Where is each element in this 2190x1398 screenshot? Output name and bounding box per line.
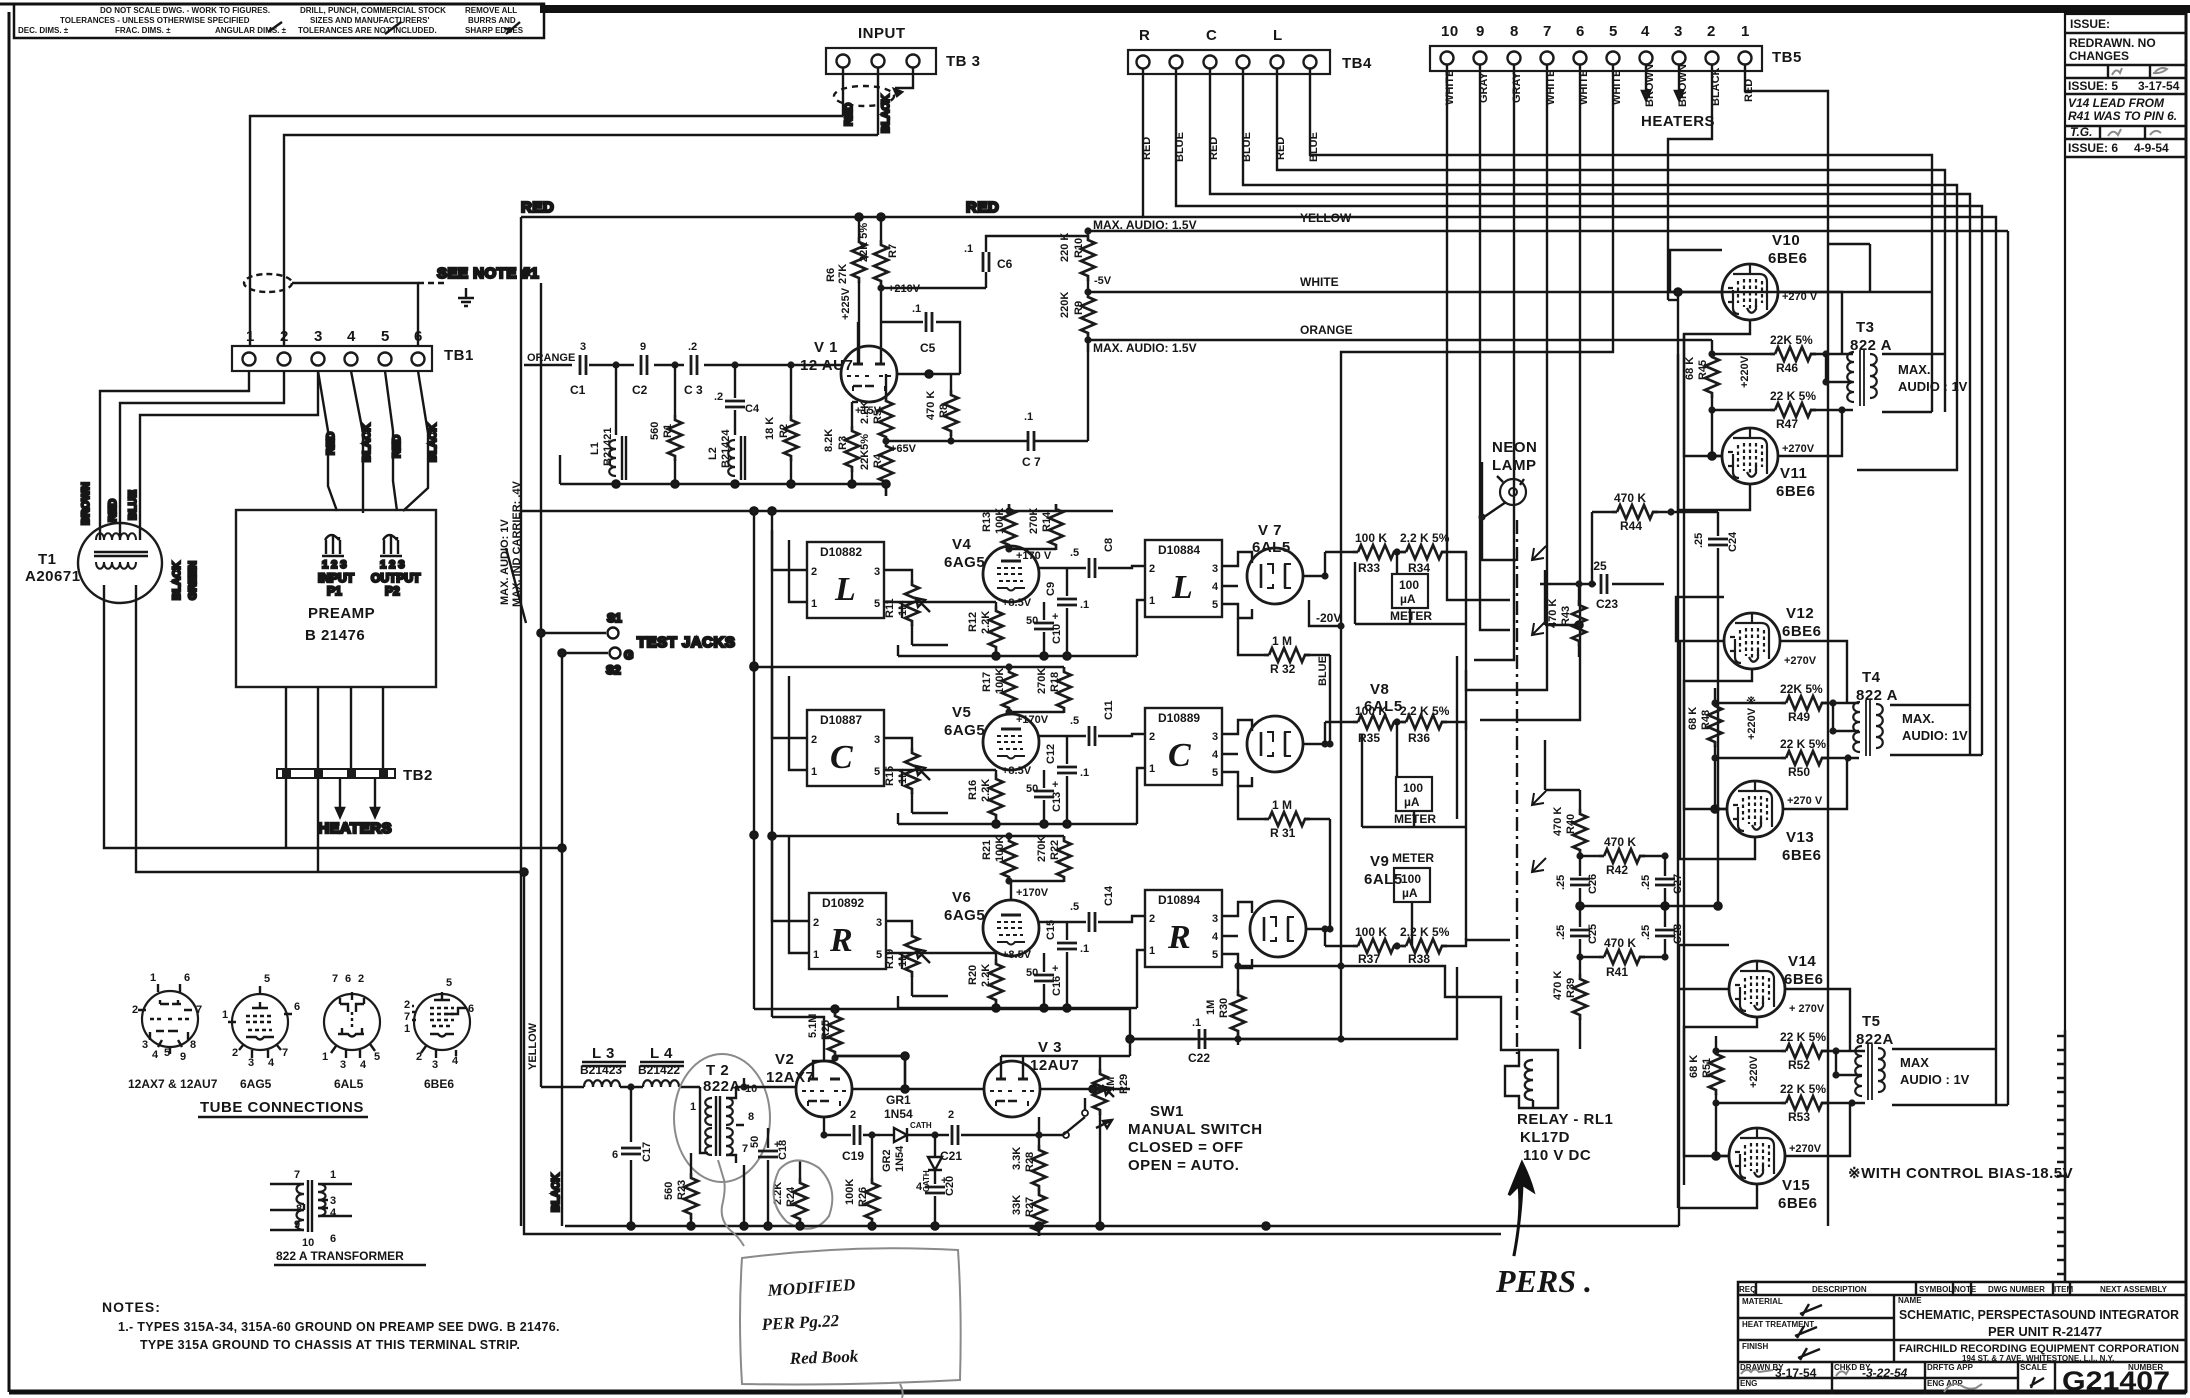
svg-text:C14: C14 <box>1103 885 1115 906</box>
svg-text:6AG5: 6AG5 <box>944 722 985 739</box>
GR2 1N54 diode vertical <box>881 1135 942 1192</box>
svg-text:R36: R36 <box>1408 731 1430 745</box>
svg-text:R18: R18 <box>1049 672 1061 692</box>
R47 22K 5% <box>1712 389 1846 431</box>
neon lamp <box>1478 439 1537 560</box>
svg-text:6: 6 <box>345 973 351 985</box>
svg-text:MAX.: MAX. <box>1902 711 1935 726</box>
C10 50 cap <box>1026 602 1063 656</box>
svg-text:RED: RED <box>391 435 403 458</box>
svg-text:R53: R53 <box>1788 1110 1810 1124</box>
svg-text:TOLERANCES - UNLESS OTHERWISE: TOLERANCES - UNLESS OTHERWISE SPECIFIED <box>60 16 250 25</box>
svg-text:+8.5V: +8.5V <box>1002 949 1032 961</box>
R20 2.2K <box>902 949 1032 1008</box>
TB5 drops <box>1341 65 1828 1226</box>
svg-text:100K: 100K <box>994 836 1006 862</box>
svg-text:470 K: 470 K <box>1604 835 1636 849</box>
svg-text:R 32: R 32 <box>1270 662 1296 676</box>
svg-text:R5: R5 <box>872 410 884 424</box>
svg-text:P2: P2 <box>385 584 400 598</box>
MAX AUDIO labels + colored buses <box>1088 211 2008 1105</box>
PERS arrow <box>1495 1163 1592 1299</box>
svg-text:+8.5V: +8.5V <box>1002 597 1032 609</box>
svg-text:3: 3 <box>874 734 880 746</box>
svg-text:R49: R49 <box>1788 710 1810 724</box>
68K R48 <box>1687 688 1722 762</box>
R37 100K + R38 2.2K5% <box>1325 925 1466 966</box>
TB5 wire labels <box>1444 64 1755 107</box>
svg-text:RED: RED <box>107 499 119 522</box>
svg-text:+225V: +225V <box>840 287 852 320</box>
R21 100K / R22 270K <box>981 832 1071 900</box>
68K R51 <box>1688 1036 1723 1107</box>
svg-text:2: 2 <box>1149 563 1155 575</box>
svg-text:R1: R1 <box>662 424 674 438</box>
svg-text:C20: C20 <box>944 1176 956 1196</box>
svg-text:V14 LEAD FROM: V14 LEAD FROM <box>2068 96 2165 110</box>
svg-text:B21424: B21424 <box>720 429 732 468</box>
svg-text:R15: R15 <box>884 766 896 786</box>
svg-text:L2: L2 <box>707 447 719 460</box>
svg-text:R27: R27 <box>1024 1197 1036 1217</box>
svg-text:22K5%: 22K5% <box>859 434 871 470</box>
svg-text:50: 50 <box>1026 783 1038 795</box>
svg-text:6: 6 <box>468 1003 474 1015</box>
svg-text:SEE NOTE #1: SEE NOTE #1 <box>437 265 539 282</box>
svg-text:OPEN = AUTO.: OPEN = AUTO. <box>1128 1157 1239 1174</box>
svg-text:G: G <box>624 648 633 662</box>
svg-text:L1: L1 <box>589 442 601 455</box>
R13 100K / R14 270K <box>981 504 1063 562</box>
output plug P2 <box>371 534 421 598</box>
svg-text:TUBE CONNECTIONS: TUBE CONNECTIONS <box>200 1099 364 1116</box>
svg-text:2.2K: 2.2K <box>859 401 871 424</box>
svg-text:R: R <box>1167 919 1191 956</box>
svg-text:+220V ※: +220V ※ <box>1746 696 1758 740</box>
heaters arrows under TB2 <box>318 778 392 837</box>
C13 50 cap <box>1026 770 1063 824</box>
svg-text:.25: .25 <box>1640 875 1652 890</box>
long -20V line under V1 <box>521 507 1113 514</box>
wires oscillator top <box>835 967 1457 1089</box>
svg-text:2: 2 <box>811 734 817 746</box>
svg-text:470 K: 470 K <box>1552 971 1564 1000</box>
svg-text:C12: C12 <box>1045 744 1057 764</box>
svg-text:.25: .25 <box>1590 559 1607 573</box>
svg-text:SCHEMATIC, PERSPECTASOUND INTE: SCHEMATIC, PERSPECTASOUND INTEGRATOR <box>1899 1307 2180 1322</box>
svg-text:CHANGES: CHANGES <box>2069 49 2129 63</box>
svg-text:C8: C8 <box>1103 538 1115 552</box>
svg-text:4: 4 <box>347 328 356 345</box>
svg-text:C: C <box>1206 27 1217 44</box>
svg-text:※WITH CONTROL BIAS-18.5V: ※WITH CONTROL BIAS-18.5V <box>1848 1165 2073 1182</box>
svg-text:10: 10 <box>302 1237 314 1249</box>
svg-text:560: 560 <box>663 1182 675 1200</box>
SW1 switch <box>1040 1098 1263 1174</box>
svg-text:5: 5 <box>874 766 880 778</box>
svg-text:470 K: 470 K <box>1614 491 1646 505</box>
R29 1M pot <box>1093 1056 1130 1226</box>
svg-text:PREAMP: PREAMP <box>308 605 375 622</box>
R25 5.1M <box>807 1009 905 1062</box>
svg-text:C18: C18 <box>777 1140 789 1160</box>
terminal block TB4 (R C L) <box>1128 27 1372 74</box>
oscillator output wiring to relay <box>0 0 1 1</box>
C14 cap <box>1070 885 1145 932</box>
svg-text:4: 4 <box>1641 23 1650 40</box>
svg-text:.5: .5 <box>1070 901 1079 913</box>
wires TB1 pins to preamp connectors <box>318 371 439 513</box>
svg-text:8.2K: 8.2K <box>823 429 835 452</box>
svg-text:270K: 270K <box>1036 668 1048 694</box>
svg-text:100K: 100K <box>844 1179 856 1205</box>
svg-text:3: 3 <box>1212 913 1218 925</box>
svg-text:YELLOW: YELLOW <box>1300 211 1352 225</box>
R19 1M pot <box>884 921 948 996</box>
tube V14 6BE6 <box>1729 953 1825 1017</box>
ISSUE revision box top-right <box>2065 14 2186 1282</box>
left rails to D boxes <box>750 507 1064 1061</box>
svg-text:µA: µA <box>1402 886 1418 900</box>
R39 470K <box>1552 957 1587 1049</box>
test jacks S1 S2 <box>537 611 735 677</box>
C23 .25 <box>1540 559 1664 611</box>
svg-text:NOTE: NOTE <box>1954 1285 1977 1294</box>
svg-text:4: 4 <box>1212 749 1219 761</box>
wire V2 plate to V3 <box>852 1056 1130 1093</box>
svg-text:BLUE: BLUE <box>127 490 139 520</box>
NOTES <box>102 1299 560 1352</box>
svg-text:D10887: D10887 <box>820 713 862 727</box>
svg-text:100 K: 100 K <box>1355 704 1387 718</box>
svg-text:+65V: +65V <box>890 443 917 455</box>
svg-text:DRILL, PUNCH, COMMERCIAL STOCK: DRILL, PUNCH, COMMERCIAL STOCK <box>300 6 446 15</box>
svg-text:C: C <box>1168 737 1191 774</box>
svg-text:2.2 K 5%: 2.2 K 5% <box>1400 925 1450 939</box>
svg-text:.5: .5 <box>1070 715 1079 727</box>
svg-text:+8.5V: +8.5V <box>1002 765 1032 777</box>
svg-text:3: 3 <box>142 1039 148 1051</box>
R30 1M <box>1205 962 1519 1050</box>
svg-text:+170V: +170V <box>1016 714 1049 726</box>
svg-text:1: 1 <box>1149 763 1155 775</box>
cathode bus under V1 <box>560 455 890 496</box>
svg-text:C11: C11 <box>1103 700 1115 720</box>
C24 .25 <box>1693 512 1739 906</box>
svg-text:7: 7 <box>742 1143 748 1155</box>
svg-text:470 K: 470 K <box>925 391 937 420</box>
svg-text:R41: R41 <box>1606 965 1628 979</box>
tube V9 6AL5 <box>1250 853 1403 957</box>
R23 560 <box>663 1153 698 1226</box>
svg-text:2: 2 <box>1149 731 1155 743</box>
svg-text:RED: RED <box>325 432 337 455</box>
title block bottom-right <box>1738 1282 2186 1396</box>
svg-text:V11: V11 <box>1780 465 1807 482</box>
svg-text:.1: .1 <box>1080 767 1089 779</box>
svg-text:5: 5 <box>1609 23 1618 40</box>
resistor R10 220K <box>1059 231 1112 292</box>
svg-text:REQ: REQ <box>1739 1285 1756 1294</box>
svg-text:S2: S2 <box>606 663 621 677</box>
cathode bus V4 <box>898 645 1137 660</box>
keyer box D10884 (L out) <box>1137 540 1252 656</box>
R35 100K + R36 2.2K5% <box>1325 704 1466 745</box>
svg-text:+220V: +220V <box>1748 1055 1760 1088</box>
svg-text:AUDIO : 1V: AUDIO : 1V <box>1898 379 1968 394</box>
svg-text:7: 7 <box>196 1004 202 1016</box>
svg-text:HEATERS: HEATERS <box>318 820 392 837</box>
svg-text:V2: V2 <box>775 1051 794 1068</box>
svg-text:+ 270V: + 270V <box>1789 1003 1825 1015</box>
svg-text:5: 5 <box>264 973 270 985</box>
see note 1 + shield <box>244 265 539 346</box>
svg-text:8: 8 <box>1510 23 1519 40</box>
svg-text:S1: S1 <box>607 611 622 625</box>
svg-text:2.2K: 2.2K <box>980 779 992 802</box>
svg-text:MAX.: MAX. <box>1898 362 1931 377</box>
svg-text:2: 2 <box>1707 23 1716 40</box>
svg-text:µA: µA <box>1404 795 1420 809</box>
terminal block TB5 <box>1430 23 1802 71</box>
svg-text:3: 3 <box>1212 731 1218 743</box>
R32 1M <box>1238 618 1334 748</box>
R5 2.2K and R4 22K5% stack <box>859 374 917 496</box>
svg-text:TB2: TB2 <box>403 767 433 784</box>
svg-text:FRAC. DIMS. ±: FRAC. DIMS. ± <box>115 26 171 35</box>
svg-text:WHITE: WHITE <box>1300 275 1339 289</box>
svg-text:G21407: G21407 <box>2062 1366 2170 1396</box>
svg-text:R17: R17 <box>981 672 993 692</box>
TB4 wire drop labels <box>1141 132 1320 162</box>
svg-text:HEATERS: HEATERS <box>1641 113 1715 130</box>
svg-text:BROWN: BROWN <box>80 482 92 525</box>
svg-text:5: 5 <box>164 1047 170 1059</box>
svg-text:L: L <box>834 571 856 608</box>
svg-text:5: 5 <box>1212 949 1218 961</box>
svg-text:.25: .25 <box>1693 533 1705 548</box>
R42 470K <box>1576 835 1668 877</box>
right vertical rails <box>1668 288 1684 1208</box>
svg-text:+270 V: +270 V <box>1787 795 1823 807</box>
svg-text:8: 8 <box>190 1039 196 1051</box>
svg-text:6: 6 <box>612 1149 618 1161</box>
svg-text:NEXT ASSEMBLY: NEXT ASSEMBLY <box>2100 1285 2168 1294</box>
svg-text:R16: R16 <box>967 780 979 800</box>
svg-text:RED: RED <box>521 199 554 216</box>
resistor R8 470K <box>925 374 958 445</box>
svg-text:V 1: V 1 <box>814 339 838 356</box>
svg-text:.1: .1 <box>912 303 921 315</box>
svg-text:R12: R12 <box>967 612 979 632</box>
svg-text:C: C <box>830 739 853 776</box>
svg-text:2: 2 <box>232 1047 238 1059</box>
svg-text:22K 5%: 22K 5% <box>1780 682 1823 696</box>
C18 50 <box>749 1128 789 1226</box>
svg-text:µA: µA <box>1400 592 1416 606</box>
svg-text:R4: R4 <box>872 453 884 468</box>
svg-text:100K: 100K <box>994 508 1006 534</box>
svg-text:TB 3: TB 3 <box>946 53 981 70</box>
svg-text:1 M: 1 M <box>1272 634 1292 648</box>
R24 2.2K with pencil loop <box>772 1160 832 1229</box>
R15 1M pot <box>884 738 948 813</box>
svg-text:R19: R19 <box>884 949 896 969</box>
svg-text:V10: V10 <box>1772 232 1800 249</box>
svg-text:1.- TYPES 315A-34, 315A-60 GRO: 1.- TYPES 315A-34, 315A-60 GROUND ON PRE… <box>118 1320 560 1334</box>
tube V13 6BE6 <box>1727 781 1823 864</box>
svg-text:V12: V12 <box>1786 605 1814 622</box>
keyer box D10887 (C) <box>772 666 902 786</box>
svg-text:6: 6 <box>330 1233 336 1245</box>
svg-text:9: 9 <box>1476 23 1485 40</box>
svg-text:DO NOT SCALE DWG. - WORK TO FI: DO NOT SCALE DWG. - WORK TO FIGURES. <box>100 6 270 15</box>
svg-text:R42: R42 <box>1606 863 1628 877</box>
svg-text:68 K: 68 K <box>1688 1055 1700 1078</box>
svg-text:R22: R22 <box>1049 840 1061 860</box>
svg-text:R38: R38 <box>1408 952 1430 966</box>
svg-text:12AU7: 12AU7 <box>1030 1057 1079 1074</box>
svg-text:R26: R26 <box>857 1187 869 1207</box>
svg-text:1: 1 <box>1741 23 1750 40</box>
svg-text:R48: R48 <box>1700 710 1712 730</box>
svg-text:100 K: 100 K <box>1355 531 1387 545</box>
svg-text:TYPE 315A GROUND TO CHASSIS AT: TYPE 315A GROUND TO CHASSIS AT THIS TERM… <box>140 1338 520 1352</box>
svg-text:D10882: D10882 <box>820 545 862 559</box>
V12/V13 left wiring <box>1676 597 1847 859</box>
svg-text:R11: R11 <box>884 598 896 618</box>
C17 <box>612 1087 653 1226</box>
svg-text:4: 4 <box>360 1059 367 1071</box>
modified note box <box>718 1160 961 1398</box>
svg-text:5.1M: 5.1M <box>807 1014 819 1038</box>
svg-text:R39: R39 <box>1565 978 1577 998</box>
svg-text:BLACK: BLACK <box>171 561 183 600</box>
resistor R7 22K 5% <box>840 217 921 364</box>
svg-text:2: 2 <box>811 566 817 578</box>
svg-text:1: 1 <box>222 1009 228 1021</box>
svg-text:T 2: T 2 <box>706 1062 729 1079</box>
C12 cap <box>1039 736 1089 824</box>
svg-text:V 7: V 7 <box>1258 522 1282 539</box>
68K R45 <box>1684 340 1719 414</box>
svg-text:SIZES AND MANUFACTURERS': SIZES AND MANUFACTURERS' <box>310 16 429 25</box>
svg-text:.1: .1 <box>1080 943 1089 955</box>
svg-text:4: 4 <box>152 1049 159 1061</box>
svg-text:R2: R2 <box>778 424 790 438</box>
keyer box D10889 (C out) <box>1137 708 1252 824</box>
svg-text:3: 3 <box>1674 23 1683 40</box>
svg-text:9: 9 <box>640 341 646 353</box>
svg-text:OUTPUT: OUTPUT <box>371 571 421 585</box>
svg-text:1: 1 <box>811 598 817 610</box>
svg-text:R7: R7 <box>887 244 899 258</box>
svg-text:6BE6: 6BE6 <box>1784 971 1824 988</box>
svg-text:3: 3 <box>874 566 880 578</box>
svg-text:R44: R44 <box>1620 519 1642 533</box>
svg-text:METER: METER <box>1392 851 1434 865</box>
svg-text:L: L <box>1273 27 1283 44</box>
svg-text:MANUAL SWITCH: MANUAL SWITCH <box>1128 1121 1263 1138</box>
svg-text:8: 8 <box>748 1111 754 1123</box>
svg-text:C22: C22 <box>1188 1051 1210 1065</box>
svg-text:220 K: 220 K <box>1059 233 1071 262</box>
svg-text:6BE6: 6BE6 <box>424 1077 454 1091</box>
svg-text:NAME: NAME <box>1898 1296 1922 1305</box>
svg-text:B21421: B21421 <box>602 427 614 466</box>
svg-text:6BE6: 6BE6 <box>1782 847 1822 864</box>
BLACK bottom bus <box>524 1140 1679 1234</box>
keyer box D10882 (L) <box>772 530 902 618</box>
svg-text:+: + <box>1052 963 1058 975</box>
transformer T5 822A <box>1832 1013 2008 1105</box>
svg-text:3: 3 <box>432 1059 438 1071</box>
svg-text:BLUE: BLUE <box>1317 656 1329 686</box>
svg-text:V8: V8 <box>1370 681 1389 698</box>
svg-text:2.2 K 5%: 2.2 K 5% <box>1400 531 1450 545</box>
svg-text:SYMBOL: SYMBOL <box>1919 1285 1953 1294</box>
tube V10 6BE6 <box>1722 232 1870 320</box>
svg-text:+170V: +170V <box>1016 887 1049 899</box>
C11 cap <box>1070 700 1145 746</box>
svg-text:6AG5: 6AG5 <box>240 1077 272 1091</box>
svg-text:68 K: 68 K <box>1684 357 1696 380</box>
transformer T1 A20671 <box>25 518 162 603</box>
svg-text:194 ST. & 7 AVE. WHITESTONE,: 194 ST. & 7 AVE. WHITESTONE, L.I., N.Y. <box>1962 1354 2114 1363</box>
6AL5 basing <box>322 973 380 1091</box>
svg-text:SW1: SW1 <box>1150 1103 1184 1120</box>
svg-text:7: 7 <box>1543 23 1552 40</box>
svg-text:C5: C5 <box>920 341 936 355</box>
input chain C1 C2 C3 <box>524 341 841 397</box>
svg-text:27K: 27K <box>837 264 849 284</box>
svg-text:1: 1 <box>246 328 255 345</box>
svg-text:4: 4 <box>916 1181 923 1193</box>
svg-text:ORANGE: ORANGE <box>527 352 575 364</box>
TB4 staircase wires to right rails <box>1143 68 1996 1049</box>
svg-text:LAMP: LAMP <box>1492 457 1537 474</box>
svg-text:R50: R50 <box>1788 765 1810 779</box>
YELLOW rail label <box>527 1022 584 1087</box>
GR1 1N54 diode <box>880 1093 939 1142</box>
zipper tick line above title block <box>2057 1030 2065 1282</box>
C5 cap <box>881 303 960 374</box>
svg-text:V13: V13 <box>1786 829 1814 846</box>
svg-text:CLOSED = OFF: CLOSED = OFF <box>1128 1139 1244 1156</box>
svg-text:2: 2 <box>280 328 289 345</box>
wire TB3 to TB1 loop <box>250 116 878 346</box>
svg-text:1: 1 <box>690 1101 696 1113</box>
svg-text:.5: .5 <box>1070 547 1079 559</box>
svg-text:C25: C25 <box>1587 924 1599 944</box>
svg-text:12AX7 & 12AU7: 12AX7 & 12AU7 <box>128 1077 218 1091</box>
svg-text:2: 2 <box>850 1109 856 1121</box>
svg-text:4: 4 <box>268 1057 275 1069</box>
svg-text:22K 5%: 22K 5% <box>858 223 870 262</box>
C16 50 cap <box>1026 953 1063 1008</box>
svg-text:6AG5: 6AG5 <box>944 554 985 571</box>
svg-text:D10884: D10884 <box>1158 543 1200 557</box>
svg-text:1M: 1M <box>1105 1077 1117 1092</box>
svg-text:470 K: 470 K <box>1604 936 1636 950</box>
R3 8.2K <box>823 402 882 484</box>
svg-text:R30: R30 <box>1218 998 1230 1018</box>
svg-text:R25: R25 <box>820 1020 832 1040</box>
svg-text:R28: R28 <box>1024 1152 1036 1172</box>
svg-text:.1: .1 <box>1192 1017 1201 1029</box>
svg-text:C24: C24 <box>1727 531 1739 552</box>
svg-text:5: 5 <box>374 1051 380 1063</box>
